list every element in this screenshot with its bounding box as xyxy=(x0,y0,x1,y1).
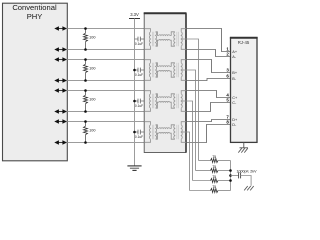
wire B+ from magnetics to RJ-45 pin 3 xyxy=(186,60,231,73)
resistor R5 75 ohm termination channel A xyxy=(199,160,211,162)
capacitor C1 0.1uF on center tap A xyxy=(135,38,139,40)
svg-text:PHY: PHY xyxy=(27,12,43,21)
bidirectional arrow at PHY pin A- xyxy=(58,49,64,51)
svg-text:1000pF, 2kV: 1000pF, 2kV xyxy=(237,170,258,174)
svg-text:75: 75 xyxy=(212,175,216,179)
resistor R3 100 ohm termination across pair C xyxy=(85,91,87,96)
wire C- from magnetics to RJ-45 pin 5 xyxy=(186,103,231,112)
wire pair line B- from PHY to magnetics xyxy=(67,80,144,82)
svg-text:3: 3 xyxy=(226,68,229,73)
svg-text:6: 6 xyxy=(226,74,229,79)
bidirectional arrow at PHY pin B+ xyxy=(58,59,64,61)
svg-text:A+: A+ xyxy=(232,50,238,54)
wire center tap C line side to termination xyxy=(186,101,193,181)
junction dot pair C- at resistor xyxy=(84,110,87,113)
choke L2 channel B common-mode choke windings xyxy=(156,63,159,67)
svg-text:75: 75 xyxy=(212,155,216,159)
junction dot pair A+ at resistor xyxy=(84,27,87,30)
resistor R7 75 ohm termination channel C xyxy=(193,180,211,182)
wire pair line D- from PHY to magnetics xyxy=(67,142,144,144)
wire center tap B line side to termination xyxy=(186,70,196,171)
svg-text:8: 8 xyxy=(226,120,229,125)
junction dot pair C+ at resistor xyxy=(84,89,87,92)
svg-text:Conventional: Conventional xyxy=(12,3,57,12)
junction dot node row C xyxy=(229,179,232,182)
wire C+ from magnetics to RJ-45 pin 4 xyxy=(186,91,231,98)
transformer T2b channel B line-side winding xyxy=(174,63,175,77)
capacitor C4 0.1uF on center tap D xyxy=(135,131,139,133)
wire A- from magnetics to RJ-45 pin 2 xyxy=(186,50,231,57)
transformer T1a channel A isolation transformer xyxy=(144,29,150,32)
wire termination common node xyxy=(230,161,232,191)
svg-text:0.1uF: 0.1uF xyxy=(135,73,143,77)
wire pair line B+ from PHY to magnetics xyxy=(67,59,144,61)
junction dot node row B xyxy=(229,169,232,172)
transformer T2a channel B isolation transformer xyxy=(144,60,150,63)
svg-text:100: 100 xyxy=(89,36,95,40)
wire D- from magnetics to RJ-45 pin 8 xyxy=(186,125,231,143)
svg-text:100: 100 xyxy=(89,67,95,71)
wire pair line C- from PHY to magnetics xyxy=(67,111,144,113)
resistor R6 75 ohm termination channel B xyxy=(196,170,211,172)
wire center tap A line side to termination xyxy=(186,39,199,161)
capacitor C5 1000pF 2kV xyxy=(231,175,239,177)
junction dot pair B- at resistor xyxy=(84,79,87,82)
wire A+ from magnetics to RJ-45 pin 1 xyxy=(186,29,231,52)
wire 3.3V rail vertical xyxy=(134,19,136,166)
svg-text:C+: C+ xyxy=(232,96,238,100)
resistor R4 100 ohm termination across pair D xyxy=(85,122,87,127)
svg-text:75: 75 xyxy=(212,165,216,169)
bidirectional arrow at PHY pin C- xyxy=(58,111,64,113)
choke L4 channel D common-mode choke windings xyxy=(156,125,159,129)
wire pair line D+ from PHY to magnetics xyxy=(67,121,144,123)
svg-text:3.3V: 3.3V xyxy=(130,12,139,17)
transformer T4a channel D isolation transformer xyxy=(144,122,150,125)
junction dot rail at center tap B xyxy=(133,69,136,72)
transformer T4b channel D line-side winding xyxy=(174,125,175,139)
svg-text:D+: D+ xyxy=(232,118,238,122)
bidirectional arrow at PHY pin B- xyxy=(58,80,64,82)
wire D+ from magnetics to RJ-45 pin 7 xyxy=(186,120,231,122)
svg-text:B+: B+ xyxy=(232,71,238,75)
junction dot pair A- at resistor xyxy=(84,48,87,51)
wire pair line A- from PHY to magnetics xyxy=(67,49,144,51)
bidirectional arrow at PHY pin D- xyxy=(58,142,64,144)
capacitor C2 0.1uF on center tap B xyxy=(135,69,139,71)
svg-text:5: 5 xyxy=(226,98,229,103)
junction dot rail at center tap D xyxy=(133,131,136,134)
capacitor C3 0.1uF on center tap C xyxy=(135,100,139,102)
svg-text:100: 100 xyxy=(89,98,95,102)
wire pair line A+ from PHY to magnetics xyxy=(67,28,144,30)
svg-text:0.1uF: 0.1uF xyxy=(135,104,143,108)
resistor R1 100 ohm termination across pair A xyxy=(85,29,87,34)
svg-text:2: 2 xyxy=(226,52,229,57)
ground GND signal ground under magnetics xyxy=(127,165,141,167)
chassis ground under RJ-45 xyxy=(243,142,245,147)
svg-text:0.1uF: 0.1uF xyxy=(135,42,143,46)
junction dot pair B+ at resistor xyxy=(84,58,87,61)
bidirectional arrow at PHY pin C+ xyxy=(58,90,64,92)
RJ-45 connector J1 xyxy=(231,38,258,143)
transformer T1b channel A line-side winding xyxy=(174,32,175,46)
resistor R8 75 ohm termination channel D xyxy=(190,190,211,192)
junction dot pair D+ at resistor xyxy=(84,120,87,123)
svg-text:0.1uF: 0.1uF xyxy=(135,135,143,139)
junction dot node cap tap xyxy=(229,174,232,177)
wire pair line C+ from PHY to magnetics xyxy=(67,90,144,92)
svg-text:75: 75 xyxy=(212,185,216,189)
bidirectional arrow at PHY pin A+ xyxy=(58,28,64,30)
junction dot pair D- at resistor xyxy=(84,141,87,144)
choke L3 channel C common-mode choke windings xyxy=(156,94,159,98)
magnetics module T1 block xyxy=(144,13,186,152)
svg-text:100: 100 xyxy=(89,129,95,133)
chassis ground at 1000pF cap xyxy=(244,186,248,190)
choke L1 channel A common-mode choke windings xyxy=(156,32,159,36)
transformer T3a channel C isolation transformer xyxy=(144,91,150,94)
svg-text:RJ-45: RJ-45 xyxy=(238,40,250,45)
PHY block U1 (Conventional PHY) xyxy=(3,3,68,161)
junction dot rail at center tap C xyxy=(133,100,136,103)
wire center tap D line side to termination xyxy=(186,132,190,191)
wire B- from magnetics to RJ-45 pin 6 xyxy=(186,79,231,81)
bidirectional arrow at PHY pin D+ xyxy=(58,121,64,123)
resistor R2 100 ohm termination across pair B xyxy=(85,60,87,65)
transformer T3b channel C line-side winding xyxy=(174,94,175,108)
